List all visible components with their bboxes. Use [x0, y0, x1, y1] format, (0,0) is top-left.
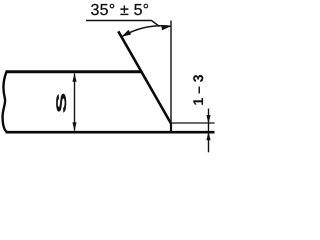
root face top extension line [172, 122, 215, 124]
leader underline [86, 21, 160, 27]
svg-text:35° ± 5°: 35° ± 5° [91, 2, 150, 19]
plate bottom edge with extension to dimension [6, 131, 215, 134]
root face edge [170, 123, 172, 132]
S dimension bottom arrowhead [72, 122, 76, 130]
plate top edge [6, 70, 142, 73]
svg-text:S: S [53, 93, 69, 114]
svg-text:1–3: 1–3 [190, 74, 206, 105]
S dimension top arrowhead [72, 73, 76, 82]
arc right arrowhead [161, 25, 171, 30]
angle dimension arc [121, 26, 171, 37]
S dimension line [74, 74, 76, 131]
arc left arrowhead [121, 30, 131, 37]
1-3 top arrowhead pointing down [206, 115, 210, 124]
vertical extension line [170, 21, 172, 133]
1-3 dimension line [208, 109, 210, 153]
bevel line with extension above plate [118, 31, 171, 123]
left break line [3, 72, 7, 132]
1-3 bottom arrowhead pointing up [206, 132, 210, 141]
